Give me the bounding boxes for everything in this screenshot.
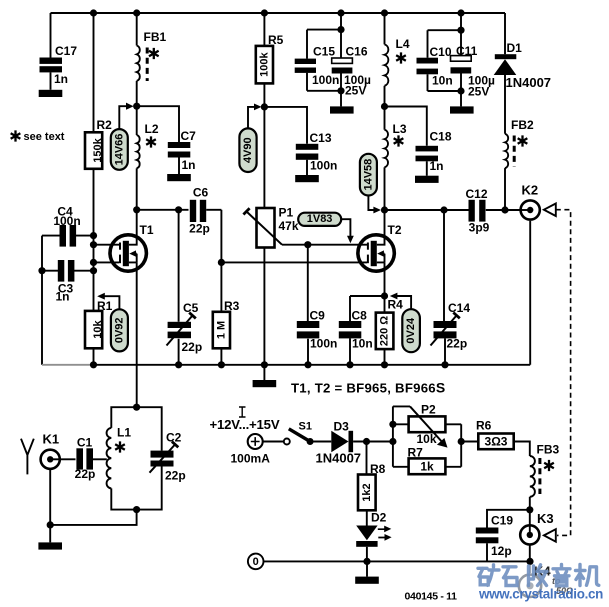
char yin [553, 565, 570, 586]
svg-text:C19: C19 [491, 514, 513, 528]
svg-text:100n: 100n [53, 214, 80, 228]
svg-text:C8: C8 [352, 309, 368, 323]
cursor I-beam artifact [239, 407, 246, 417]
node L4/L3 junction [381, 103, 388, 110]
svg-text:C5: C5 [183, 301, 199, 315]
wire T1 source down to L1 tank (crosses bus) [136, 262, 138, 407]
svg-text:R6: R6 [476, 419, 492, 433]
svg-text:3Ω3: 3Ω3 [485, 434, 508, 448]
svg-text:10n: 10n [432, 74, 453, 88]
svg-text:FB2: FB2 [511, 118, 534, 132]
wire R2/R1 column [93, 13, 95, 365]
svg-text:25V: 25V [345, 84, 366, 98]
svg-text:100n: 100n [312, 73, 339, 87]
svg-text:see text: see text [24, 131, 65, 143]
wire D3 to P2 network [353, 441, 393, 443]
svg-text:www.crystalradio.cn: www.crystalradio.cn [478, 587, 603, 602]
svg-text:R8: R8 [370, 462, 386, 476]
svg-text:K3: K3 [537, 511, 554, 526]
capacitor C7 1n [168, 129, 196, 172]
char shi [503, 567, 517, 586]
resistor R7 1k [408, 446, 446, 475]
wire C19 branch [487, 510, 530, 562]
resistor R6 3R3 [476, 419, 514, 450]
transistor T2 [358, 210, 402, 271]
potentiometer P2 10k [393, 403, 448, 448]
wire bus left segment (faded) [42, 364, 94, 366]
svg-text:150k: 150k [92, 137, 104, 162]
wire top rail [51, 12, 506, 14]
capacitor C18 1n [416, 130, 452, 174]
inductor FB1 [137, 13, 167, 106]
node FB3/K3/C19 junction [526, 506, 533, 513]
wire to C13 [264, 107, 307, 175]
wire main ground bus [94, 364, 531, 366]
svg-text:L1: L1 [117, 426, 131, 440]
wire T2 source [384, 262, 386, 312]
wire K1 to C1 [61, 458, 76, 460]
inductor L1 [107, 426, 132, 489]
char ji [576, 565, 586, 586]
svg-text:1n: 1n [55, 290, 69, 304]
capacitor C10 10n [417, 13, 462, 91]
svg-text:22p: 22p [182, 340, 203, 354]
watermark CJK text (drawn as strokes) [478, 565, 599, 586]
svg-text:L4: L4 [396, 37, 410, 51]
resistor R5 100k [256, 13, 284, 208]
inductor L4 [385, 13, 410, 107]
svg-text:1 M: 1 M [215, 321, 227, 339]
capacitor C9 100n [297, 309, 338, 351]
wire C9 column [307, 245, 309, 365]
wire C7 branch [137, 106, 179, 174]
capacitor C11 100u electrolytic [451, 44, 496, 106]
text see text [11, 130, 21, 141]
connector K4 (faded under watermark) [519, 565, 541, 597]
node T2 drain junction [381, 206, 388, 213]
resistor R4 220 ohm [376, 298, 403, 365]
svg-text:12p: 12p [491, 544, 512, 558]
inductor FB3 [530, 443, 560, 510]
svg-text:0V92: 0V92 [113, 317, 125, 343]
wire P2/R7 right rail [445, 424, 478, 467]
capacitor C5 22p (trimmer) [167, 210, 203, 365]
inductor L3 [385, 107, 407, 211]
svg-text:100mA: 100mA [231, 452, 271, 466]
resistor R1 10k [85, 299, 113, 348]
wire G1 line to T2 [221, 261, 367, 263]
svg-text:100k: 100k [258, 51, 270, 76]
capacitor C3 1n [42, 260, 94, 304]
svg-text:C6: C6 [193, 186, 209, 200]
svg-text:T2: T2 [388, 223, 402, 237]
star FB2 [518, 135, 528, 146]
node T1 drain junction [133, 206, 140, 213]
node K1 ground junction [47, 521, 54, 528]
svg-text:25V: 25V [468, 85, 489, 99]
capacitor C8 10n [339, 309, 373, 351]
svg-text:FB1: FB1 [144, 30, 167, 44]
svg-text:0V24: 0V24 [405, 317, 417, 344]
ground C11 [450, 106, 474, 113]
wire R3 column [220, 262, 222, 364]
svg-text:T1: T1 [140, 223, 154, 237]
callout 14V66 [111, 103, 134, 170]
star FB3 [544, 460, 554, 471]
potentiometer P1 47k [243, 206, 298, 248]
svg-text:C18: C18 [430, 130, 452, 144]
node T2 source junction [381, 292, 388, 299]
diode D1 1N4007 [494, 13, 551, 134]
svg-text:10k: 10k [417, 432, 437, 446]
node C14 tee and FB2 tee on K2 line [440, 206, 447, 213]
switch S1 [284, 421, 314, 446]
diode D2 LED [356, 511, 391, 562]
svg-text:1k: 1k [420, 459, 434, 473]
wire K1 ground column [49, 469, 51, 542]
node L1 tank junctions [133, 404, 140, 411]
wire P1 bottom to bus [263, 248, 265, 365]
star L2 [146, 136, 156, 147]
capacitor C13 100n [296, 131, 338, 173]
svg-text:C14: C14 [448, 301, 470, 315]
node C4/gate/C3 junctions on R column [90, 232, 97, 239]
svg-text:L3: L3 [393, 122, 407, 136]
star L4 [396, 52, 406, 63]
svg-text:FB3: FB3 [537, 443, 560, 457]
wire K2 ground [529, 221, 531, 365]
svg-text:4V90: 4V90 [242, 137, 254, 163]
star FB1 [149, 48, 159, 59]
capacitor C15 100n [295, 13, 341, 91]
resistor R3 1M [213, 299, 240, 348]
node P2/R7 right junction [458, 438, 465, 445]
svg-text:C12: C12 [465, 187, 487, 201]
svg-text:22p: 22p [447, 337, 468, 351]
node zero rail junctions [363, 558, 370, 565]
svg-text:D2: D2 [371, 511, 387, 525]
svg-text:T1, T2 = BF965, BF966S: T1, T2 = BF965, BF966S [291, 380, 445, 396]
resistor R2 150k [85, 118, 112, 169]
callout 1V83 [298, 213, 354, 244]
callout 14V58 [360, 154, 381, 214]
svg-text:C7: C7 [181, 129, 197, 143]
svg-text:100n: 100n [310, 159, 337, 173]
svg-text:040145 - 11: 040145 - 11 [405, 591, 458, 603]
ground C13 [295, 175, 319, 182]
svg-text:C11: C11 [456, 44, 478, 58]
svg-text:R3: R3 [224, 299, 240, 313]
svg-text:C2: C2 [166, 431, 182, 445]
svg-text:K2: K2 [522, 183, 539, 198]
svg-text:10n: 10n [352, 337, 373, 351]
connector K2 [520, 183, 540, 220]
node ground bus junctions [90, 361, 97, 368]
capacitor C12 3p9 [465, 187, 489, 235]
ground K1 [38, 542, 62, 549]
svg-text:1n: 1n [430, 159, 444, 173]
svg-text:K1: K1 [43, 432, 60, 447]
svg-text:D3: D3 [334, 420, 350, 434]
svg-text:1n: 1n [182, 158, 196, 172]
inductor L2 [137, 106, 159, 210]
supply plus terminal [231, 434, 271, 466]
ground C18 [415, 176, 439, 183]
star L1 [115, 441, 125, 452]
inductor FB2 [505, 118, 534, 210]
wire drain node to C6 [137, 209, 189, 211]
connector K2 plug triangle [544, 204, 556, 217]
connector K3 plug triangle [544, 529, 556, 542]
svg-text:C17: C17 [55, 44, 77, 58]
char shou [529, 566, 534, 586]
node FB1/L2 junction [133, 103, 140, 110]
node R8 tee and P2 network left junction [363, 438, 370, 445]
wire L1 tank loop [50, 407, 162, 525]
svg-text:22p: 22p [75, 467, 96, 481]
antenna symbol [21, 439, 34, 475]
wire switch to D3 [314, 441, 332, 443]
svg-text:22p: 22p [165, 469, 186, 483]
wire bottom zero rail [264, 560, 531, 562]
svg-text:P2: P2 [421, 403, 436, 417]
wire dashed K2-K3 link [556, 210, 571, 536]
svg-text:47k: 47k [279, 219, 299, 233]
connector K1 [41, 432, 61, 469]
ground C16 [330, 106, 354, 113]
connector K3 [520, 510, 553, 562]
svg-text:R7: R7 [408, 446, 424, 460]
svg-text:D1: D1 [507, 41, 523, 55]
capacitor C2 22p (trimmer) [150, 431, 186, 483]
star L3 [394, 135, 404, 146]
node R5 bottom junction [261, 103, 268, 110]
capacitor C4 100n [42, 205, 94, 247]
wire left bypass column [41, 236, 43, 365]
node C5 tee [175, 206, 182, 213]
svg-text:R5: R5 [268, 33, 284, 47]
svg-text:L2: L2 [145, 122, 159, 136]
ground C7 [167, 174, 191, 181]
svg-text:C16: C16 [346, 45, 368, 59]
svg-text:C13: C13 [310, 131, 332, 145]
svg-text:P1: P1 [279, 206, 294, 220]
capacitor C1 22p [75, 436, 107, 482]
transistor T1 [94, 210, 154, 271]
svg-text:S1: S1 [299, 421, 312, 433]
ground bus symbol [263, 365, 265, 380]
node top rail junctions [90, 9, 97, 16]
svg-text:C10: C10 [430, 45, 452, 59]
resistor R8 1k2 [358, 442, 386, 526]
wire plus to switch [262, 441, 283, 443]
svg-text:R2: R2 [97, 118, 113, 132]
svg-text:1V83: 1V83 [307, 213, 333, 225]
capacitor C14 22p (trimmer) [431, 210, 471, 365]
svg-text:1N4007: 1N4007 [506, 75, 552, 90]
capacitor C17 [40, 13, 78, 90]
wire K2 output line [385, 209, 520, 211]
supply zero terminal [248, 554, 264, 570]
svg-text:14V58: 14V58 [362, 159, 374, 191]
capacitor C19 12p [476, 514, 514, 559]
svg-text:C9: C9 [310, 309, 326, 323]
svg-text:100n: 100n [310, 337, 337, 351]
char kuang [478, 568, 488, 585]
capacitor C6 22p [189, 186, 221, 236]
svg-text:C15: C15 [313, 45, 335, 59]
svg-text:R4: R4 [388, 298, 404, 312]
wire P2/R7 left rail [393, 406, 409, 466]
svg-text:+12V...+15V: +12V...+15V [210, 417, 280, 432]
svg-text:3p9: 3p9 [469, 221, 490, 235]
capacitor C16 100u electrolytic [332, 45, 371, 107]
svg-text:14V66: 14V66 [113, 134, 125, 166]
svg-text:1k2: 1k2 [361, 483, 373, 501]
svg-text:1N4007: 1N4007 [316, 451, 362, 466]
svg-text:220 Ω: 220 Ω [379, 316, 391, 346]
svg-text:1n: 1n [54, 72, 68, 86]
svg-text:22p: 22p [189, 222, 210, 236]
wire C6 to R3/G1 node [220, 210, 222, 263]
wire R6 to FB3 [514, 442, 530, 457]
svg-text:0: 0 [253, 556, 259, 568]
callout 0V24 [390, 293, 420, 353]
svg-text:C1: C1 [77, 436, 93, 450]
wire G2 line to T2 [282, 244, 367, 246]
svg-text:R1: R1 [97, 299, 113, 313]
wire C8 branch [350, 296, 385, 365]
ground C17 [39, 90, 63, 97]
diode D3 1N4007 [316, 420, 362, 466]
ground D2 [366, 561, 368, 576]
wire C18 branch [385, 107, 427, 176]
callout 0V92 [97, 293, 128, 352]
svg-text:10k: 10k [92, 320, 104, 339]
callout 4V90 [239, 104, 261, 173]
